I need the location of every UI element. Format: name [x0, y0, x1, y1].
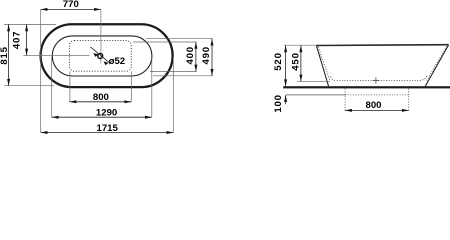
svg-text:770: 770: [63, 0, 79, 10]
svg-text:ø52: ø52: [109, 56, 126, 67]
svg-text:800: 800: [365, 100, 381, 111]
svg-text:490: 490: [201, 46, 212, 64]
svg-text:450: 450: [291, 52, 302, 70]
svg-text:100: 100: [273, 94, 284, 112]
svg-text:400: 400: [185, 46, 196, 64]
svg-text:815: 815: [0, 46, 10, 64]
svg-text:1290: 1290: [96, 108, 117, 119]
svg-text:520: 520: [273, 52, 284, 70]
svg-text:407: 407: [11, 31, 22, 49]
svg-text:800: 800: [93, 92, 109, 103]
svg-text:1715: 1715: [97, 123, 119, 134]
